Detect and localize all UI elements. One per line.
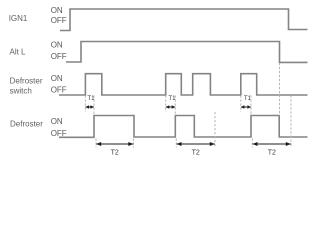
signal label Defroster xyxy=(10,120,43,129)
Alt L waveform wire xyxy=(66,42,308,63)
T1 marker 2 double arrow xyxy=(166,105,176,109)
Defroster switch OFF label xyxy=(51,86,67,95)
signal label Defroster switch xyxy=(10,77,43,96)
T2 marker 1 double arrow xyxy=(96,142,133,146)
svg-text:IGN1: IGN1 xyxy=(9,14,28,23)
svg-text:Alt L: Alt L xyxy=(10,48,27,57)
Defroster ON label xyxy=(51,117,63,126)
T2 marker 1 dashed extension lines xyxy=(96,139,134,148)
svg-text:T1: T1 xyxy=(244,95,252,102)
T2 marker 2 dashed extension lines xyxy=(176,112,215,148)
svg-text:T1: T1 xyxy=(87,95,95,102)
Defroster switch waveform wire xyxy=(59,74,308,95)
svg-text:switch: switch xyxy=(10,87,32,96)
IGN1 waveform wire xyxy=(60,9,308,31)
svg-text:T1: T1 xyxy=(168,95,176,102)
svg-text:OFF: OFF xyxy=(51,52,67,61)
svg-text:T2: T2 xyxy=(111,150,119,157)
T2 marker 3 label xyxy=(268,150,276,157)
T1 marker 1 dashed extension lines xyxy=(85,96,94,116)
svg-text:ON: ON xyxy=(51,6,63,15)
T2 marker 2 double arrow xyxy=(177,142,215,146)
dashed guide line at Alt L falling edge xyxy=(279,63,281,116)
T1 marker 1 double arrow xyxy=(85,105,94,109)
svg-text:OFF: OFF xyxy=(51,16,67,25)
Alt L ON label xyxy=(51,41,63,50)
Defroster switch ON label xyxy=(51,74,63,83)
svg-text:ON: ON xyxy=(51,117,63,126)
signal label Alt L xyxy=(10,48,27,57)
T1 marker 3 dashed extension lines xyxy=(241,96,251,116)
T1 marker 3 label xyxy=(244,95,252,102)
T2 marker 1 label xyxy=(111,150,119,157)
T2 marker 3 double arrow xyxy=(253,142,291,146)
T2 marker 3 dashed extension lines xyxy=(252,96,291,148)
Alt L OFF label xyxy=(51,52,67,61)
Defroster waveform wire xyxy=(59,116,308,138)
T1 marker 3 double arrow xyxy=(241,105,251,109)
svg-text:T2: T2 xyxy=(268,150,276,157)
T2 marker 2 label xyxy=(192,150,200,157)
IGN1 ON label xyxy=(51,6,63,15)
T1 marker 2 dashed extension lines xyxy=(166,96,176,116)
Defroster OFF label xyxy=(51,129,67,138)
svg-text:Defroster: Defroster xyxy=(10,120,43,129)
svg-text:OFF: OFF xyxy=(51,86,67,95)
svg-text:ON: ON xyxy=(51,41,63,50)
signal label IGN1 xyxy=(9,14,28,23)
svg-text:Defroster: Defroster xyxy=(10,77,43,86)
svg-text:T2: T2 xyxy=(192,150,200,157)
T1 marker 2 label xyxy=(168,95,176,102)
T1 marker 1 label xyxy=(87,95,95,102)
svg-text:ON: ON xyxy=(51,74,63,83)
IGN1 OFF label xyxy=(51,16,67,25)
